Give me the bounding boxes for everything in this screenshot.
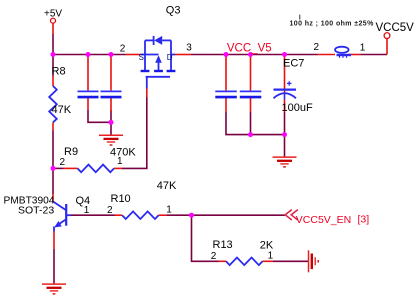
svg-text:2: 2 <box>314 42 320 53</box>
svg-text:2: 2 <box>120 43 126 54</box>
svg-text:3: 3 <box>186 42 192 53</box>
svg-text:R8: R8 <box>52 66 66 78</box>
svg-text:100 hz ; 100 ohm ±25%: 100 hz ; 100 ohm ±25% <box>290 21 375 28</box>
svg-text:[3]: [3] <box>358 214 370 226</box>
svg-text:1: 1 <box>268 250 274 261</box>
svg-text:SOT-23: SOT-23 <box>18 205 54 217</box>
svg-text:1: 1 <box>360 43 366 54</box>
svg-text:D: D <box>167 53 173 62</box>
svg-text:Q3: Q3 <box>166 5 181 17</box>
svg-text:1: 1 <box>84 205 90 216</box>
svg-text:2: 2 <box>211 251 217 262</box>
svg-text:VCC5V: VCC5V <box>376 22 415 34</box>
svg-text:+5V: +5V <box>44 8 62 19</box>
svg-text:2: 2 <box>107 205 113 216</box>
svg-text:R13: R13 <box>213 239 233 251</box>
svg-text:EC7: EC7 <box>283 57 304 69</box>
svg-text:470K: 470K <box>110 147 136 159</box>
svg-text:R9: R9 <box>64 146 78 158</box>
svg-text:VCC5V_EN: VCC5V_EN <box>296 214 351 226</box>
svg-text:R10: R10 <box>111 193 131 205</box>
svg-text:1: 1 <box>166 204 172 215</box>
svg-text:100uF: 100uF <box>282 102 313 114</box>
svg-text:47K: 47K <box>52 104 72 116</box>
svg-text:2: 2 <box>60 157 66 168</box>
svg-text:1: 1 <box>117 156 123 167</box>
svg-text:VCC_V5: VCC_V5 <box>227 43 272 55</box>
svg-text:47K: 47K <box>157 180 177 192</box>
svg-text:S: S <box>139 53 144 62</box>
